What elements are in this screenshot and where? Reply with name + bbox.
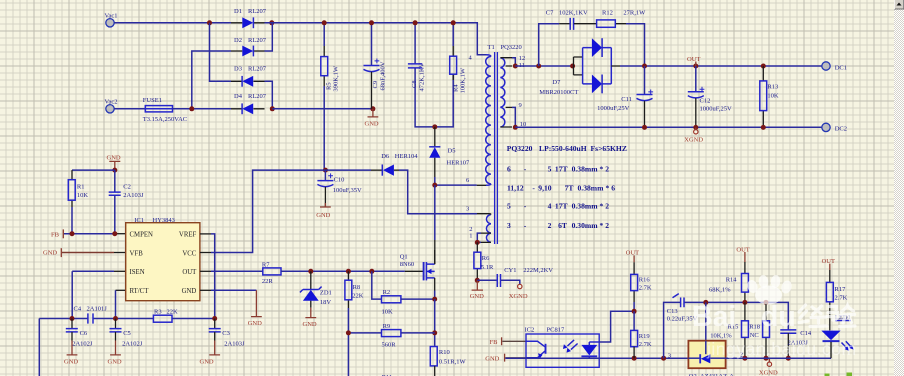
svg-text:XGND: XGND [684, 136, 703, 143]
power port FB (PC817) [490, 337, 502, 346]
junction [308, 269, 313, 274]
svg-text:GND: GND [107, 154, 121, 161]
resistor R2 10K [382, 289, 435, 315]
svg-text:C7: C7 [546, 9, 554, 16]
svg-text:R3: R3 [154, 309, 162, 316]
svg-text:1: 1 [469, 233, 472, 240]
svg-text:8N60: 8N60 [400, 261, 414, 268]
svg-text:C9: C9 [372, 81, 379, 89]
junction [369, 269, 374, 274]
svg-text:R7: R7 [262, 261, 270, 268]
svg-text:R5: R5 [326, 82, 333, 90]
primary winding 4-6 [486, 57, 491, 184]
wire [688, 357, 699, 359]
wire AZ431 anode to XGND rail [726, 357, 831, 359]
svg-text:22R: 22R [262, 278, 274, 285]
power port XGND (under C12) [684, 127, 703, 143]
junction [322, 20, 327, 25]
resistor R16 2.7K [631, 262, 652, 311]
junction [761, 125, 766, 130]
ground GND at IC pin [248, 290, 262, 327]
capacitor C3 2A103J [209, 319, 245, 348]
svg-text:VFB: VFB [130, 250, 144, 257]
resistor R9 560R [348, 323, 434, 349]
svg-text:CMPEN: CMPEN [130, 232, 154, 239]
wire opto bottom rail to AZ431 [505, 357, 688, 359]
svg-text:D5: D5 [448, 148, 456, 155]
svg-text:RL207: RL207 [248, 8, 267, 15]
svg-text:R4: R4 [453, 84, 460, 92]
svg-text:D3: D3 [234, 66, 242, 73]
diode D4 RL207 [231, 93, 267, 114]
ground GND under C5 [108, 341, 122, 366]
svg-text:68K,1%: 68K,1% [709, 286, 731, 293]
phototransistor [526, 341, 545, 347]
wire IC GND pin [200, 289, 211, 291]
svg-text:2A102J: 2A102J [122, 341, 143, 348]
junction [742, 300, 747, 305]
svg-text:MBR20100CT: MBR20100CT [539, 89, 578, 96]
wire gate drive [281, 270, 405, 272]
svg-text:D4: D4 [234, 93, 243, 100]
node R6 bottom [475, 278, 480, 283]
wire drain node to transformer pin 6 [435, 184, 477, 186]
svg-text:GND: GND [303, 321, 317, 328]
svg-text:HY3843: HY3843 [153, 217, 175, 224]
wire D6 anode to transformer pin 3 [399, 170, 477, 214]
junction [413, 20, 418, 25]
svg-text:3: 3 [466, 206, 469, 213]
junction [642, 64, 647, 69]
scrollbar [894, 0, 904, 376]
wire opto LED anode to R16/R19 node [599, 311, 634, 342]
wire fuse to D4 [173, 108, 232, 110]
opto LED [581, 345, 597, 356]
svg-text:ISEN: ISEN [130, 269, 145, 276]
svg-text:RL207: RL207 [248, 93, 267, 100]
wire [211, 170, 325, 252]
diode D6 HER104 [325, 153, 418, 176]
power port OUT (secondary top) [687, 56, 700, 66]
svg-text:2A103J: 2A103J [123, 192, 144, 199]
snubber C7 R12 loop [539, 24, 560, 66]
junction [786, 356, 791, 361]
wire [211, 234, 215, 319]
svg-text:R1: R1 [77, 183, 85, 190]
svg-text:VREF: VREF [179, 232, 197, 239]
junction [570, 64, 575, 69]
wire GND to R1 [72, 169, 115, 171]
wire Vac1 down to D3 row [210, 23, 232, 82]
svg-text:C10: C10 [334, 177, 345, 184]
svg-text:27R,1W: 27R,1W [623, 9, 646, 16]
shunt reference IC3/Q2 AZ431 [668, 341, 743, 376]
node -BUS GND [370, 106, 375, 111]
resistor R7 22R [262, 261, 281, 285]
wire [626, 24, 645, 66]
svg-text:R19: R19 [639, 333, 650, 340]
wire VCC up to aux node [200, 252, 211, 254]
wire fuse node up to D2 anode [192, 51, 231, 109]
pin 6 stub [477, 184, 486, 186]
svg-text:D1: D1 [234, 8, 242, 15]
node snubber bottom [432, 124, 437, 129]
svg-text:2.7K: 2.7K [639, 341, 652, 348]
pin [500, 58, 512, 127]
capacitor C10 100uF,35V [317, 170, 362, 207]
power port FB (left) [51, 229, 63, 238]
pin [114, 233, 126, 235]
svg-text:ZD1: ZD1 [320, 289, 332, 296]
svg-text:jingyan.baidu.com: jingyan.baidu.com [706, 339, 857, 359]
feedback divider rail [684, 302, 788, 329]
svg-text:100uF,35V: 100uF,35V [333, 187, 362, 194]
junction [693, 64, 698, 69]
resistor R4 100K,1W [450, 23, 467, 94]
power port XGND (bottom) [759, 358, 778, 376]
svg-text:222M,2KV: 222M,2KV [523, 267, 553, 274]
svg-text:GND: GND [485, 356, 499, 363]
wire +BUS [265, 23, 487, 55]
transformer winding note [507, 144, 627, 230]
svg-text:T3.15A,250VAC: T3.15A,250VAC [143, 116, 187, 123]
wire Vac1 to D1 [114, 22, 231, 24]
wire [434, 291, 436, 300]
svg-text:1000uF,25V: 1000uF,25V [700, 105, 732, 112]
junction [632, 309, 637, 314]
power port GND (left, to VFB) [43, 248, 61, 257]
svg-text:GND: GND [108, 359, 122, 366]
junction [536, 64, 541, 69]
svg-text:C5: C5 [123, 330, 131, 337]
wire [477, 233, 481, 242]
wire GND to VFB [62, 252, 114, 254]
ground GND under C6 [64, 341, 78, 366]
capacitor C14 2A103J [780, 330, 812, 358]
capacitor C9 68nF,400V electrolytic [364, 23, 387, 109]
wire gate branch down to R2 [372, 271, 382, 299]
watermark Baidu Jingyan [692, 275, 857, 359]
capacitor CY1 222M,2KV [477, 267, 553, 287]
svg-text:PC817: PC817 [547, 326, 565, 333]
svg-text:GND: GND [200, 359, 214, 366]
IC IC1 HY3843 [126, 217, 200, 301]
svg-text:C13: C13 [667, 308, 678, 315]
ground GND under C10 [316, 203, 331, 219]
green marks bottom [825, 373, 853, 376]
pin [434, 240, 436, 264]
transformer T1 PQ3220 [466, 44, 526, 245]
svg-text:390K,1W: 390K,1W [333, 65, 340, 91]
resistor R1 10K [68, 170, 88, 234]
svg-text:IC1: IC1 [134, 217, 144, 224]
svg-text:OUT: OUT [687, 56, 700, 63]
svg-text:10K: 10K [767, 93, 779, 100]
junction [661, 356, 666, 361]
svg-text:R9: R9 [383, 323, 391, 330]
capacitor C2 2A103J [109, 170, 144, 234]
svg-text:HER104: HER104 [395, 153, 419, 160]
svg-text:C8: C8 [411, 80, 418, 88]
svg-text:C14: C14 [800, 330, 812, 337]
svg-text:1000uF,25V: 1000uF,25V [597, 105, 629, 112]
svg-text:OUT: OUT [736, 246, 749, 253]
svg-text:FUSE1: FUSE1 [143, 97, 162, 104]
svg-text:68nF,400V: 68nF,400V [380, 61, 387, 90]
svg-text:DC1: DC1 [835, 64, 847, 71]
fuse FUSE1 [143, 97, 187, 123]
node fuse junction [189, 106, 194, 111]
wire ISEN [114, 270, 126, 272]
junction [212, 316, 217, 321]
resistor R13 10K [760, 66, 779, 127]
power port OUT (R16) [626, 250, 639, 263]
svg-text:GND: GND [316, 212, 330, 219]
wire [115, 290, 117, 318]
svg-text:100K,1W: 100K,1W [460, 67, 467, 93]
scrollbar up button [894, 0, 904, 9]
svg-text:5.1R: 5.1R [481, 264, 494, 271]
wire RT/CT [116, 289, 126, 291]
port DC1 [822, 62, 847, 72]
resistor R18 NC [749, 302, 769, 358]
svg-text:VCC: VCC [182, 250, 196, 257]
svg-text:OUT: OUT [626, 250, 639, 257]
wire drain down to Q1 [434, 185, 436, 240]
diode D1 RL207 [231, 8, 267, 28]
port Vac1 [105, 13, 118, 27]
svg-text:NC: NC [750, 332, 759, 339]
junction [764, 300, 769, 305]
zener ZD1 18V [300, 271, 332, 307]
junction [112, 168, 117, 173]
svg-text:3: 3 [668, 352, 671, 359]
diode D2 RL207 [231, 37, 267, 56]
wire secondary bottom rail to DC2 [515, 126, 821, 128]
node VCC/aux [323, 168, 328, 173]
svg-text:DC2: DC2 [835, 125, 847, 132]
pin [481, 233, 491, 242]
svg-text:R8: R8 [353, 284, 361, 291]
pin [114, 252, 126, 254]
timing network bottom rail [39, 319, 214, 376]
wire [512, 58, 515, 127]
svg-text:22K: 22K [352, 293, 364, 300]
svg-text:10K: 10K [382, 309, 394, 316]
led LED1 [821, 314, 853, 358]
pin [405, 270, 423, 272]
svg-text:9: 9 [519, 102, 522, 109]
resistor R14 68K,1% [709, 262, 748, 302]
junction [642, 125, 647, 130]
capacitor C12 1000uF,25V [688, 66, 732, 127]
mosfet Q1 8N60 [400, 250, 435, 299]
svg-text:D6: D6 [381, 153, 390, 160]
svg-text:2.7K: 2.7K [639, 284, 652, 291]
junction [742, 356, 747, 361]
junction [346, 330, 351, 335]
svg-text:C3: C3 [222, 330, 230, 337]
wire D3 anode down to D4 anode [265, 81, 273, 109]
power port GND (PC817) [485, 354, 504, 363]
wire [710, 357, 725, 359]
node Q1 source [432, 297, 437, 302]
svg-text:Vac1: Vac1 [105, 13, 118, 20]
svg-text:GND: GND [365, 121, 379, 128]
wire VREF down to R3/C3 [200, 233, 211, 235]
node +BUS left [269, 20, 274, 25]
svg-text:IC2: IC2 [525, 326, 535, 333]
wire [72, 271, 114, 318]
capacitor C4 2A101J (series) [74, 306, 108, 324]
resistor R5 390K,1W [321, 23, 340, 170]
svg-text:XGND: XGND [509, 293, 528, 300]
svg-text:R2: R2 [383, 289, 391, 296]
paw [755, 286, 782, 305]
junction [513, 125, 518, 130]
svg-text:102K,1KV: 102K,1KV [559, 9, 588, 16]
svg-text:2A101J: 2A101J [87, 306, 108, 313]
svg-text:C4: C4 [74, 306, 82, 313]
svg-text:Bai: Bai [692, 301, 736, 333]
wire FB to IC2 [502, 340, 526, 342]
svg-text:OUT: OUT [822, 258, 835, 265]
wire Vac2 to fuse [114, 108, 145, 110]
pin [574, 57, 583, 75]
pin [477, 213, 491, 216]
junction [70, 231, 75, 236]
svg-text:C6: C6 [80, 330, 88, 337]
resistor R15 10K,1% [710, 302, 748, 358]
svg-text:GND: GND [248, 320, 262, 327]
resistor R6 5.1R [474, 242, 494, 280]
aux winding 3-2,1 [486, 215, 490, 243]
junction [632, 356, 637, 361]
junction [764, 356, 769, 361]
junction [693, 125, 698, 130]
junction [369, 20, 374, 25]
svg-text:R18: R18 [749, 323, 760, 330]
svg-text:472K,1KV: 472K,1KV [419, 62, 426, 91]
svg-text:C11: C11 [621, 96, 632, 103]
svg-text:FB: FB [490, 339, 499, 346]
pin [434, 250, 436, 291]
resistor R17 2.7K [826, 270, 847, 330]
optocoupler IC2 PC817 [525, 326, 600, 367]
node Vac1-D3 junction [207, 20, 212, 25]
resistor R10 0.51R,1W [430, 347, 466, 376]
svg-text:R12: R12 [602, 9, 613, 16]
svg-text:GND: GND [64, 359, 78, 366]
svg-text:GND: GND [182, 288, 197, 295]
svg-text:R10: R10 [439, 349, 450, 356]
wire R8 bottom off-sheet [347, 333, 349, 376]
ground GND under R6 [470, 280, 484, 300]
svg-text:D7: D7 [552, 79, 561, 86]
power port OUT (R14) [736, 246, 749, 262]
svg-text:RL207: RL207 [248, 66, 267, 73]
junction [70, 316, 75, 321]
junction [513, 64, 518, 69]
capacitor C8 472K,1KV [408, 23, 453, 127]
port Vac2 [105, 99, 118, 114]
svg-text:PQ3220: PQ3220 [501, 44, 522, 51]
svg-text:du: du [761, 301, 796, 333]
svg-text:Vac2: Vac2 [105, 99, 118, 106]
svg-text:0.51R,1W: 0.51R,1W [439, 358, 467, 365]
wire source down to R10 [434, 299, 436, 346]
svg-text:R14: R14 [726, 277, 738, 284]
wire GND to IC2 [505, 357, 526, 359]
junction [346, 269, 351, 274]
svg-text:C2: C2 [123, 183, 131, 190]
resistor R19 2.7K [631, 311, 652, 358]
svg-text:GND: GND [43, 250, 57, 257]
svg-text:RT/CT: RT/CT [130, 288, 150, 295]
svg-text:OUT: OUT [182, 269, 197, 276]
svg-text:T1: T1 [488, 44, 495, 51]
junction [112, 231, 117, 236]
svg-text:GND: GND [470, 293, 484, 300]
wire [705, 341, 707, 355]
capacitor C13 0.22uF [664, 294, 698, 359]
junction [432, 330, 437, 335]
emission arrows [567, 340, 577, 350]
svg-text:RL207: RL207 [248, 37, 267, 44]
svg-text:2A102J: 2A102J [72, 341, 93, 348]
svg-text:PQ3220LP:550-640uHFs>65KHZ: PQ3220LP:550-640uHFs>65KHZ [507, 144, 627, 153]
svg-text:C12: C12 [700, 97, 711, 104]
capacitor C11 1000uF,25V [597, 66, 653, 127]
svg-text:18V: 18V [320, 299, 332, 306]
watermark hanzi 经验 drawn as strokes [799, 305, 855, 327]
node -BUS junction [270, 106, 275, 111]
pin [611, 65, 620, 67]
resistor R3 22K [153, 309, 178, 323]
power port XGND (CY1) [509, 284, 528, 300]
svg-text:2A103J: 2A103J [224, 341, 245, 348]
svg-text:HER107: HER107 [447, 160, 471, 167]
svg-text:Q1: Q1 [400, 254, 408, 261]
ground GND under ZD1 [303, 308, 317, 329]
junction [475, 240, 480, 245]
svg-text:R13: R13 [767, 84, 778, 91]
wire -BUS to GND [272, 108, 373, 110]
power port OUT (R17) [822, 258, 835, 270]
diode D3 RL207 [231, 66, 267, 87]
diode D5 HER107 [429, 127, 470, 185]
core [495, 52, 498, 244]
svg-text:10K: 10K [77, 192, 89, 199]
svg-text:22K: 22K [167, 309, 179, 316]
svg-text:560R: 560R [382, 341, 397, 348]
resistor R12 27R,1W [574, 9, 646, 27]
rectifier D7 MBR20100CT [539, 38, 620, 96]
capacitor C7 102K,1KV [546, 9, 588, 30]
secondary winding 12,11-9,10 [500, 58, 504, 127]
svg-text:CY1: CY1 [504, 267, 516, 274]
svg-text:D2: D2 [234, 37, 242, 44]
junction [113, 316, 118, 321]
svg-text:FB: FB [51, 231, 60, 238]
ground GND at -BUS [365, 109, 379, 128]
wire IC OUT pin to R7 [200, 270, 211, 272]
ground GND top-left [107, 154, 121, 170]
wire D7 out to DC1 [620, 65, 822, 67]
wire AZ431 ref [705, 302, 707, 340]
svg-text:R16: R16 [639, 277, 651, 284]
junction [432, 183, 437, 188]
